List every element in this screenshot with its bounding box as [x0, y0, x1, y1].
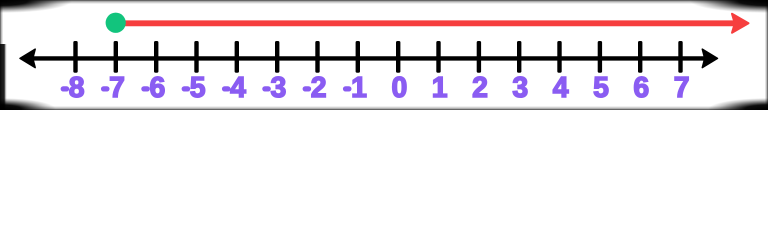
svg-text:5: 5: [190, 72, 206, 104]
svg-text:4: 4: [230, 72, 246, 104]
svg-text:5: 5: [593, 72, 609, 104]
green endpoint dot at -7: [106, 13, 126, 33]
svg-text:3: 3: [270, 72, 286, 104]
svg-text:6: 6: [149, 72, 165, 104]
vignette corner bottom-left: [0, 98, 56, 120]
vignette left lower strip: [0, 44, 5, 110]
vignette right edge: [767, 0, 768, 110]
vignette left edge: [0, 0, 1, 110]
svg-text:4: 4: [553, 72, 569, 104]
tick 6: [638, 41, 642, 73]
tick -7: [114, 41, 118, 73]
label -6: [141, 86, 150, 91]
tick -5: [194, 41, 198, 73]
tick -8: [73, 41, 77, 73]
svg-text:2: 2: [311, 72, 327, 104]
label -4: [222, 86, 231, 91]
label -7: [101, 86, 110, 91]
svg-text:1: 1: [351, 72, 367, 104]
tick 2: [477, 41, 481, 73]
number line axis shaft: [30, 56, 707, 60]
tick -1: [356, 41, 360, 73]
tick 4: [557, 41, 561, 73]
svg-text:0: 0: [391, 72, 407, 104]
left axis arrowhead: [20, 49, 35, 67]
red ray arrowhead: [732, 14, 749, 33]
tick 3: [517, 41, 521, 73]
vignette corner bottom-right: [708, 98, 768, 120]
svg-text:1: 1: [432, 72, 448, 104]
label -3: [262, 86, 271, 91]
right axis arrowhead: [702, 49, 717, 67]
tick 0: [396, 41, 400, 73]
tick -3: [275, 41, 279, 73]
svg-text:8: 8: [69, 72, 85, 104]
tick -2: [315, 41, 319, 73]
vignette top edge: [0, 0, 768, 1]
svg-text:2: 2: [472, 72, 488, 104]
label -5: [182, 86, 191, 91]
label -8: [61, 86, 70, 91]
tick 5: [598, 41, 602, 73]
vignette corner top-right: [690, 0, 768, 13]
vignette bottom edge: [0, 109, 768, 110]
svg-text:3: 3: [512, 72, 528, 104]
tick 1: [436, 41, 440, 73]
tick -6: [154, 41, 158, 73]
tick 7: [678, 41, 682, 73]
label -1: [343, 86, 352, 91]
tick -4: [235, 41, 239, 73]
vignette corner top-left: [0, 0, 72, 13]
svg-text:6: 6: [633, 72, 649, 104]
svg-text:7: 7: [674, 72, 690, 104]
svg-text:7: 7: [109, 72, 125, 104]
label -2: [303, 86, 312, 91]
red ray shaft from -7: [116, 20, 734, 26]
